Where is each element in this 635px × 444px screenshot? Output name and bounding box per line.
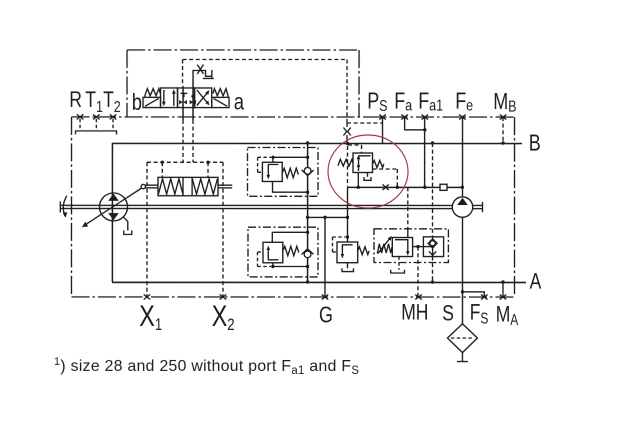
svg-text:X2: X2: [212, 299, 235, 334]
svg-text:1) size 28 and 250 without por: 1) size 28 and 250 without port Fa1 and …: [54, 356, 359, 377]
svg-text:MA: MA: [496, 303, 519, 329]
svg-text:T1: T1: [85, 88, 103, 116]
svg-text:Fe: Fe: [455, 88, 473, 115]
svg-text:MB: MB: [493, 89, 516, 116]
svg-text:B: B: [529, 131, 541, 157]
svg-text:G: G: [319, 303, 333, 329]
svg-text:R: R: [69, 88, 82, 113]
svg-text:T2: T2: [103, 88, 121, 116]
svg-text:PS: PS: [367, 88, 387, 115]
svg-text:Fa: Fa: [394, 88, 412, 115]
svg-text:Fa1: Fa1: [418, 88, 443, 115]
svg-text:a: a: [234, 89, 244, 115]
svg-text:MH: MH: [401, 301, 428, 326]
svg-text:FS: FS: [470, 301, 489, 327]
svg-text:A: A: [530, 270, 542, 295]
svg-text:b: b: [132, 90, 142, 116]
svg-text:S: S: [442, 301, 454, 326]
svg-text:X1: X1: [139, 299, 162, 334]
